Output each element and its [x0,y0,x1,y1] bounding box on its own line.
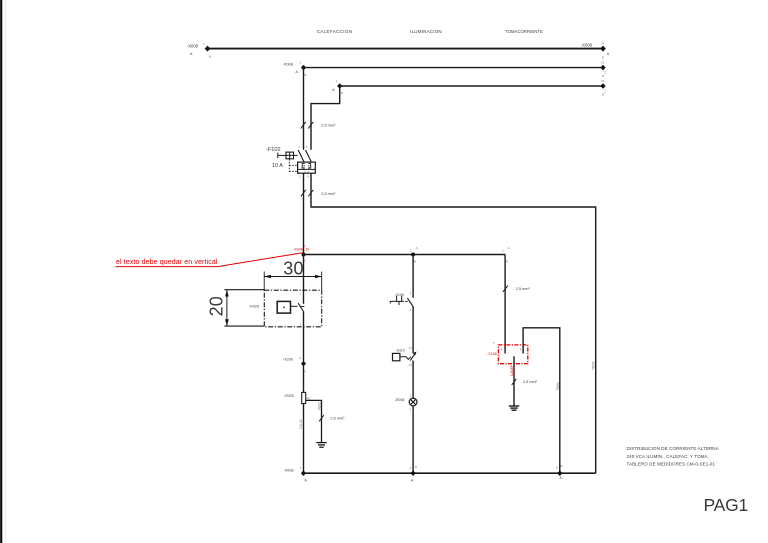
wire vertical drop from bus2 [303,68,305,150]
svg-text:el texto debe quedar en vertic: el texto debe quedar en vertical [116,259,218,266]
svg-text:-S106: -S106 [395,293,404,297]
wire bus1 y=48.6 [208,48,604,50]
wire below fuse to bottom bus [303,404,305,474]
svg-text:TABLERO DE MEDIDORES CM-0-SE1-: TABLERO DE MEDIDORES CM-0-SE1-01 [627,461,716,466]
wire between S110 and lamp [412,360,414,398]
svg-text:A: A [508,246,510,250]
switch S106 [390,291,413,312]
node X008-10 red labels [293,244,309,262]
wire below contact [303,312,305,393]
svg-text:240 VCA ILUMIN., CALEFAC. Y TO: 240 VCA ILUMIN., CALEFAC. Y TOMA. [627,454,710,459]
wire vertical drop from bus3 L-shape [311,86,340,150]
svg-text:2,5 mm²: 2,5 mm² [331,417,346,421]
svg-text:10 A: 10 A [272,163,283,169]
wire right pin up and over to right drop [523,328,560,473]
svg-text:B: B [602,74,604,78]
wire below breaker left [303,173,305,254]
fuse R025 [284,392,310,403]
svg-text:13: 13 [409,346,413,350]
svg-text:-X008: -X008 [282,61,293,66]
red underline [116,266,218,268]
svg-text:-S110: -S110 [396,349,405,353]
wire bus2 y=67.6 [304,67,604,69]
svg-text:2,5 mm²: 2,5 mm² [321,192,336,196]
red leader line [218,253,303,267]
svg-text:I> I>: I> I> [304,170,310,174]
contact in box [298,292,304,327]
svg-text:B: B [561,464,563,468]
svg-text:-X208: -X208 [283,358,293,362]
node X008-A left diamond bus1 [187,42,211,59]
cable marker PE branch [319,415,324,421]
svg-text:B: B [506,260,508,264]
middle column wire from junction [412,255,414,298]
ground symbol right [509,406,519,410]
junction dot main [302,253,306,257]
svg-text:TOM1: TOM1 [556,382,560,391]
dimension 30 line with arrows [264,272,322,291]
svg-text:B: B [305,73,307,77]
svg-text:-K025: -K025 [249,304,259,308]
svg-text:CALEFACCION: CALEFACCION [317,29,353,34]
node bottom left X008 [283,466,307,483]
node left diamond bus3 [332,79,342,95]
cable marker lower right [308,190,313,197]
svg-text:10: 10 [305,248,309,252]
cable marker right column [503,286,508,292]
svg-text:14: 14 [601,42,605,46]
lamp E008 [395,393,417,411]
wire center pin down to ground [513,356,515,405]
svg-text:-X008: -X008 [581,42,593,47]
svg-text:2,5 mm²: 2,5 mm² [516,287,531,291]
svg-text:B: B [341,91,343,95]
svg-text:A: A [304,369,306,373]
right column wire from corner [504,255,506,354]
svg-text:PE02: PE02 [318,402,322,410]
svg-text:-R025: -R025 [284,394,294,398]
wire through box upper [303,255,305,304]
svg-text:2,5 mm²: 2,5 mm² [523,380,538,384]
wire below breaker right to far right elbow [311,173,596,473]
dimension 20 line with arrows [224,290,264,326]
cable marker lower left [301,190,306,197]
connector X208 [283,356,306,374]
svg-text:-F102: -F102 [266,147,281,153]
svg-text:-X108: -X108 [487,352,497,356]
wire horizontal distribution y=254.5 [304,254,506,256]
title block text [627,446,719,466]
switch S110 [393,346,417,367]
svg-text:CAL02: CAL02 [299,419,303,429]
bottom bus wire [304,472,596,474]
breaker contact right pole [306,145,312,162]
wire lamp to bottom bus [412,406,414,473]
svg-text:12: 12 [601,61,605,65]
node X008 left diamond bus2 [282,61,306,77]
fuse element -F102 [266,147,298,169]
node bottom mid [410,465,418,483]
svg-text:B: B [209,55,211,59]
svg-text:ILUMINACION: ILUMINACION [410,29,442,34]
red connector box X108 [487,341,528,363]
linkage dashed [289,159,297,172]
PE branch from fuse [306,400,322,442]
svg-text:PAG1: PAG1 [704,495,749,515]
wire between S106 and S110 [412,306,414,353]
svg-text:-X008: -X008 [293,248,303,252]
node right diamond bus2 [600,61,606,79]
svg-text:TOMACORRIENTE: TOMACORRIENTE [505,29,543,34]
svg-text:2,5 mm²: 2,5 mm² [321,123,336,127]
svg-text:B: B [602,92,604,96]
junction dot mid [410,246,418,264]
svg-text:TOM1: TOM1 [592,361,596,370]
svg-text:20: 20 [207,296,227,316]
wire bus3 y=86 [340,85,603,87]
svg-text:-X008: -X008 [187,44,199,49]
left page border [0,0,2,543]
node right diamond bus3 [600,79,606,97]
cable marker upper right [308,122,313,129]
svg-text:B: B [602,56,604,60]
svg-text:30: 30 [283,259,303,279]
coil square inside box [277,301,297,313]
svg-text:B: B [415,465,417,469]
ground symbol left [316,443,326,448]
svg-text:-E008: -E008 [395,398,405,402]
svg-text:DISTRIBUCION DE CORRIENTE ALTE: DISTRIBUCION DE CORRIENTE ALTERNA [627,446,719,451]
svg-text:-X008: -X008 [283,469,293,473]
cable marker ground wire [512,379,517,385]
svg-text:14: 14 [409,363,413,367]
node bottom right [556,464,563,480]
svg-text:CALEF: CALEF [510,365,514,376]
dashed device box [264,290,321,327]
cable marker upper left [301,122,306,129]
breaker contact left pole [298,145,304,162]
svg-text:A: A [416,246,418,250]
node X008-A right diamond bus1 [581,42,610,60]
svg-text:B: B [414,260,416,264]
breaker box F102 [298,162,316,178]
svg-text:10: 10 [601,79,605,83]
corner node right [502,246,510,264]
